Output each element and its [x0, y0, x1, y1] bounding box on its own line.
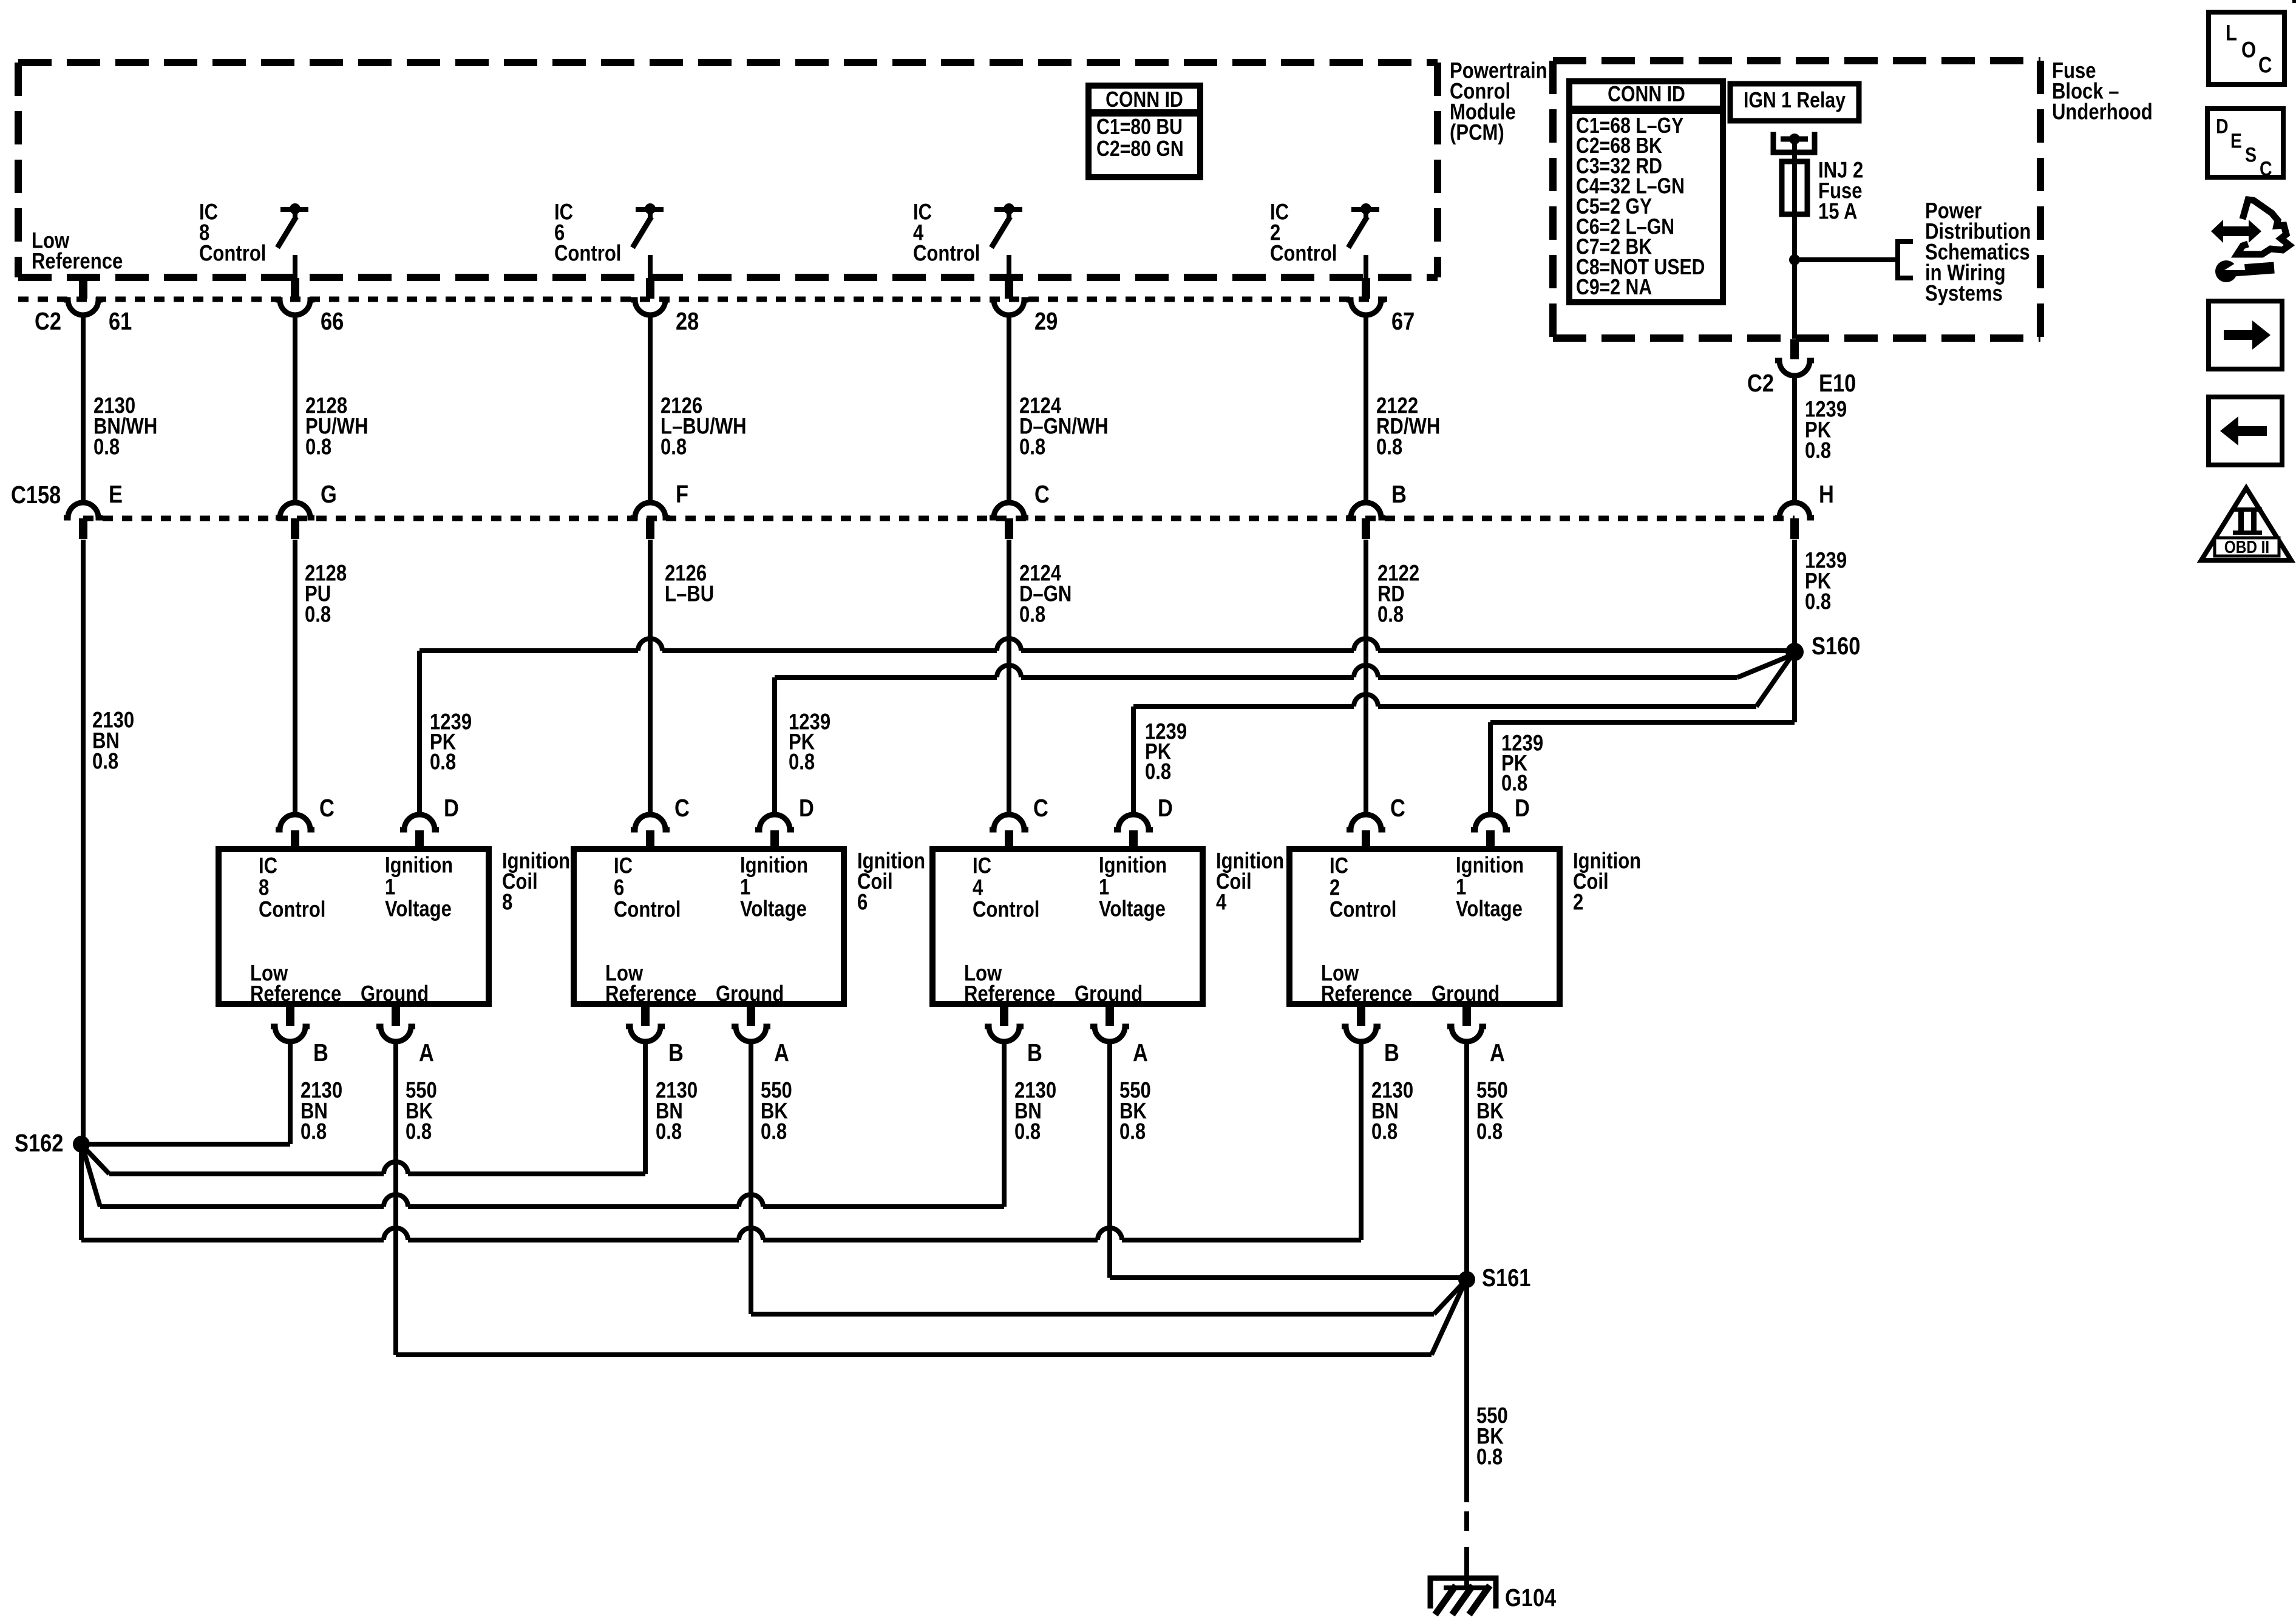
bracket to Power Distribution Schematics [1898, 242, 1913, 278]
svg-text:Voltage: Voltage [740, 897, 807, 921]
svg-text:Control: Control [259, 897, 325, 922]
svg-text:28: 28 [676, 308, 699, 335]
icon OBD II triangle [2201, 488, 2291, 560]
wire 1239 PK branch to coil 8 pin D [419, 639, 1787, 651]
svg-text:E: E [2230, 129, 2242, 152]
svg-text:C: C [1033, 795, 1048, 822]
wire 2124 D-GN (C158-C to coil 4 pin C) [1007, 540, 1011, 816]
wire 2122 RD/WH (C2 pin 67 to C158) [1364, 314, 1368, 504]
splice S162 [73, 1136, 90, 1153]
wire 2130 BN/WH (C2 pin 61 to C158) [81, 314, 86, 504]
svg-text:0.8: 0.8 [1019, 435, 1045, 459]
IC 6 Control driver switch (PCM) [636, 207, 664, 212]
svg-text:Control: Control [973, 897, 1039, 922]
coil 4 pin B [1000, 1006, 1008, 1026]
svg-text:0.8: 0.8 [92, 749, 118, 774]
IC 2 Control driver switch (PCM) [1351, 207, 1379, 212]
svg-text:E10: E10 [1819, 370, 1856, 397]
svg-text:G104: G104 [1505, 1584, 1556, 1612]
svg-text:0.8: 0.8 [93, 435, 120, 459]
icon next-page arrow button [2209, 301, 2282, 369]
svg-text:D: D [799, 795, 814, 822]
svg-text:Reference: Reference [964, 981, 1055, 1006]
wire S162 to coil 2 pin B [79, 1144, 84, 1240]
svg-text:E: E [109, 481, 123, 508]
wire 1239 PK (E10 to C158-H) [1792, 375, 1797, 504]
ignition coil 6 box [574, 849, 844, 1004]
wire 2130 BN (C158-E to S162) [81, 540, 86, 1140]
svg-text:L: L [2226, 21, 2237, 46]
wire 1239 PK branch to coil 6 pin D [775, 665, 1737, 677]
svg-text:Control: Control [1330, 897, 1396, 922]
svg-text:C9=2 NA: C9=2 NA [1576, 276, 1652, 300]
svg-text:C: C [2258, 53, 2272, 78]
connector C2 pin E10 (fuse block) [1790, 339, 1799, 359]
svg-text:0.8: 0.8 [301, 1119, 327, 1144]
svg-text:2: 2 [1573, 890, 1583, 915]
coil 8 pin C [276, 815, 314, 830]
svg-text:0.8: 0.8 [430, 750, 456, 775]
svg-text:Voltage: Voltage [385, 897, 452, 921]
svg-text:C2=80 GN: C2=80 GN [1096, 137, 1184, 161]
svg-text:0.8: 0.8 [1376, 435, 1402, 459]
wire relay to fuse to fuse-block bottom [1792, 152, 1797, 339]
wire 2122 RD (C158-B to coil 2 pin C) [1364, 540, 1368, 816]
svg-text:0.8: 0.8 [406, 1119, 432, 1144]
svg-text:C: C [674, 795, 690, 822]
svg-text:Voltage: Voltage [1456, 897, 1523, 921]
wire coil 4 pin A to S161 [1107, 1040, 1112, 1278]
Fuse Block - Underhood box (dashed) [1553, 61, 2040, 338]
coil 6 pin C [631, 815, 670, 830]
svg-text:IC: IC [614, 853, 633, 878]
svg-text:CONN ID: CONN ID [1608, 82, 1685, 106]
svg-text:6: 6 [614, 875, 624, 900]
Fuse block CONN ID table [1569, 81, 1723, 302]
ignition coil 8 box [219, 849, 489, 1004]
connector C2 pin 29 [1005, 278, 1013, 299]
svg-text:0.8: 0.8 [305, 602, 331, 627]
svg-text:0.8: 0.8 [1371, 1119, 1398, 1144]
svg-text:L–BU: L–BU [665, 581, 714, 606]
wire coil 8 pin A to S161 [393, 1040, 398, 1355]
svg-text:0.8: 0.8 [305, 435, 331, 459]
wire 2124 D–GN/WH (C2 pin 29 to C158) [1007, 314, 1011, 504]
svg-text:A: A [1490, 1039, 1505, 1066]
ignition coil 4 box [932, 849, 1203, 1004]
svg-text:B: B [1391, 481, 1407, 508]
connector C2 pin 28 [646, 278, 654, 299]
svg-text:D: D [2216, 115, 2229, 138]
coil 2 pin B [1357, 1006, 1365, 1026]
PCM module box (dashed) [18, 63, 1438, 277]
ignition coil 2 box [1289, 849, 1560, 1004]
svg-text:C1=80 BU: C1=80 BU [1096, 115, 1183, 139]
coil 8 pin A [392, 1006, 400, 1026]
svg-text:0.8: 0.8 [661, 435, 687, 459]
connector C2 pin 61 [79, 278, 87, 299]
svg-text:61: 61 [109, 308, 132, 335]
svg-text:Ground: Ground [1432, 981, 1500, 1006]
svg-text:A: A [774, 1039, 789, 1066]
svg-text:S161: S161 [1482, 1264, 1530, 1292]
wire 1239 PK branch to coil 2 pin D [1792, 652, 1797, 722]
PCM CONN ID table [1089, 86, 1200, 177]
svg-text:15 A: 15 A [1818, 199, 1857, 224]
IC 8 Control driver switch (PCM) [280, 207, 308, 212]
svg-text:1: 1 [740, 875, 750, 900]
svg-text:B: B [668, 1039, 684, 1066]
svg-text:0.8: 0.8 [1019, 602, 1045, 627]
svg-text:G: G [321, 481, 337, 508]
connector C158 pin G [276, 503, 314, 518]
wire coil 6 pin A to S161 [749, 1040, 753, 1314]
svg-text:C2: C2 [1747, 370, 1774, 397]
connector C158 pin H [1775, 503, 1814, 518]
wire 550 BK (S161 to G104) [1464, 1280, 1469, 1502]
svg-text:4: 4 [1216, 890, 1226, 915]
svg-text:Control: Control [199, 241, 266, 266]
ground G104 [1430, 1578, 1496, 1609]
icon DESC button [2207, 109, 2283, 177]
svg-text:S162: S162 [15, 1130, 63, 1157]
coil 2 pin D [1471, 815, 1510, 830]
svg-text:Reference: Reference [32, 249, 123, 274]
svg-text:Ground: Ground [361, 981, 429, 1006]
svg-text:A: A [419, 1039, 434, 1066]
coil 4 pin A [1106, 1006, 1114, 1026]
coil 4 pin C [990, 815, 1028, 830]
icon LOC button [2209, 12, 2284, 84]
svg-text:C: C [319, 795, 335, 822]
connector C158 pin B [1347, 503, 1385, 518]
svg-text:8: 8 [502, 890, 512, 915]
coil 2 pin A [1462, 1006, 1471, 1026]
coil 6 pin A [747, 1006, 755, 1026]
svg-text:0.8: 0.8 [656, 1119, 682, 1144]
relay contact symbol [1773, 132, 1815, 152]
svg-text:Ground: Ground [716, 981, 784, 1006]
junction to Power Distribution [1789, 254, 1800, 265]
svg-text:Systems: Systems [1925, 281, 2003, 306]
connector row C158, dotted line [83, 516, 1795, 521]
svg-text:Voltage: Voltage [1099, 897, 1166, 921]
svg-text:O: O [2241, 38, 2256, 63]
svg-text:1: 1 [385, 875, 395, 900]
svg-text:Reference: Reference [250, 981, 341, 1006]
connector row C2 (PCM), dotted line [18, 297, 1387, 302]
svg-text:0.8: 0.8 [1014, 1119, 1041, 1144]
svg-text:2: 2 [1330, 875, 1340, 900]
svg-text:Ground: Ground [1075, 981, 1143, 1006]
svg-text:Ignition: Ignition [1099, 853, 1167, 878]
svg-text:S: S [2245, 143, 2257, 166]
coil 2 pin C [1347, 815, 1385, 830]
svg-text:67: 67 [1391, 308, 1415, 335]
svg-text:C: C [1390, 795, 1405, 822]
svg-text:0.8: 0.8 [1805, 589, 1831, 614]
svg-text:A: A [1133, 1039, 1148, 1066]
svg-text:D: D [1515, 795, 1530, 822]
icon hand with arrows and wrench [2211, 220, 2261, 243]
svg-text:Reference: Reference [1321, 981, 1412, 1006]
svg-text:D: D [1158, 795, 1173, 822]
wire coil 2 pin A to S161 [1464, 1040, 1469, 1280]
svg-text:OBD II: OBD II [2224, 537, 2269, 557]
wire 1239 PK branch to coil 4 pin D [1133, 694, 1756, 707]
svg-text:0.8: 0.8 [1119, 1119, 1146, 1144]
svg-text:0.8: 0.8 [1476, 1119, 1503, 1144]
wire 2126 L–BU/WH (C2 pin 28 to C158) [648, 314, 653, 504]
connector C158 pin E [64, 503, 103, 518]
svg-text:0.8: 0.8 [1476, 1445, 1503, 1470]
svg-text:6: 6 [857, 890, 868, 915]
wire 2128 PU/WH (C2 pin 66 to C158) [293, 314, 297, 504]
coil 4 pin D [1114, 815, 1153, 830]
svg-text:1: 1 [1099, 875, 1109, 900]
coil 6 pin D [755, 815, 794, 830]
svg-text:1: 1 [1456, 875, 1466, 900]
svg-text:0.8: 0.8 [761, 1119, 787, 1144]
svg-text:D: D [444, 795, 459, 822]
svg-text:IC: IC [973, 853, 991, 878]
svg-text:Ignition: Ignition [385, 853, 453, 878]
svg-text:Control: Control [1270, 241, 1337, 266]
wire 1239 PK (C158-H to S160) [1792, 540, 1797, 652]
svg-text:29: 29 [1034, 308, 1058, 335]
svg-text:Ignition: Ignition [740, 853, 808, 878]
svg-text:Reference: Reference [605, 981, 696, 1006]
wire 2128 PU (C158-G to coil 8 pin C) [293, 540, 297, 816]
page corner tick [2292, 0, 2296, 3]
svg-text:(PCM): (PCM) [1450, 120, 1504, 145]
connector C158 pin F [631, 503, 670, 518]
svg-text:B: B [313, 1039, 328, 1066]
svg-text:8: 8 [259, 875, 269, 900]
svg-text:0.8: 0.8 [789, 750, 815, 775]
svg-text:C158: C158 [11, 481, 61, 509]
svg-text:B: B [1384, 1039, 1399, 1066]
svg-text:H: H [1819, 481, 1834, 508]
IC 4 Control driver switch (PCM) [994, 207, 1022, 212]
coil 6 pin B [641, 1006, 650, 1026]
wire S162 to coil 4 pin B [84, 1151, 100, 1207]
connector C2 pin 67 [1362, 278, 1370, 299]
svg-text:0.8: 0.8 [1805, 438, 1831, 463]
svg-text:Underhood: Underhood [2052, 100, 2153, 124]
wire S162 to coil 6 pin B [86, 1150, 109, 1174]
svg-text:CONN ID: CONN ID [1106, 87, 1183, 112]
svg-text:4: 4 [973, 875, 983, 900]
svg-text:IC: IC [259, 853, 277, 878]
svg-text:0.8: 0.8 [1377, 602, 1404, 627]
svg-text:S160: S160 [1812, 632, 1860, 660]
svg-text:IC: IC [1330, 853, 1348, 878]
svg-text:F: F [676, 481, 688, 508]
svg-text:Control: Control [554, 241, 621, 266]
splice S160 [1785, 643, 1804, 661]
svg-text:C2: C2 [35, 308, 61, 335]
relay IGN 1 Relay box [1730, 84, 1859, 121]
svg-text:C: C [1034, 481, 1050, 508]
connector C2 pin 66 [291, 278, 299, 299]
coil 8 pin B [286, 1006, 294, 1026]
wire S162 to coil 8 pin B [81, 1142, 290, 1147]
splice S161 [1458, 1271, 1475, 1288]
svg-text:0.8: 0.8 [1145, 759, 1171, 784]
svg-text:Control: Control [614, 897, 681, 922]
svg-text:IGN 1 Relay: IGN 1 Relay [1744, 88, 1846, 112]
svg-text:Ignition: Ignition [1456, 853, 1524, 878]
connector C158 pin C [990, 503, 1028, 518]
fuse INJ 2 Fuse 15 A [1782, 161, 1807, 214]
svg-text:C: C [2260, 157, 2272, 180]
svg-text:B: B [1027, 1039, 1042, 1066]
svg-text:66: 66 [321, 308, 344, 335]
svg-text:Control: Control [913, 241, 980, 266]
svg-text:0.8: 0.8 [1501, 771, 1527, 796]
coil 8 pin D [400, 815, 439, 830]
icon prev-page arrow button [2209, 397, 2282, 465]
wire 2126 L-BU (C158-F to coil 6 pin C) [648, 540, 653, 816]
